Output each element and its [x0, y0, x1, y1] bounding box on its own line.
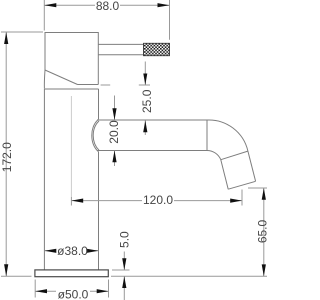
spout bottom edge — [97, 150, 207, 152]
arrow 172.0 up — [4, 32, 8, 44]
svg-text:ø38.0: ø38.0 — [57, 244, 88, 258]
spout bend outer arc — [207, 120, 248, 151]
body left edge — [43, 89, 45, 270]
spout top edge — [97, 119, 207, 121]
arrow 120.0 right — [230, 199, 242, 203]
arrow o50.0 right — [97, 289, 109, 293]
faucet head block — [45, 33, 98, 85]
arrow 20.0 down — [112, 108, 116, 120]
dim 172.0 dimension line — [5, 32, 7, 276]
arrow o50.0 left — [35, 289, 47, 293]
dim o50.0 dimension line — [35, 290, 108, 292]
body top edge — [44, 88, 98, 90]
body right edge lower — [98, 152, 100, 270]
spout bend inner arc — [207, 151, 221, 160]
dim 65.0 top extension line — [248, 187, 267, 189]
dim 120.0 right extension line — [241, 190, 243, 206]
svg-text:25.0: 25.0 — [140, 89, 154, 113]
body right edge upper — [98, 89, 100, 119]
spout-body intersection arc inner — [93, 121, 99, 150]
arrow 172.0 down — [4, 264, 8, 276]
dim o50.0 left extension line — [34, 280, 36, 298]
arrow 5.0 up — [122, 276, 126, 288]
dim o50.0 right extension line — [108, 280, 110, 298]
dim 20.0 lower arrow stem — [114, 151, 116, 167]
spout-body intersection arc outer — [92, 119, 99, 152]
shared bottom extension line — [111, 275, 267, 277]
base plate — [35, 270, 108, 277]
dim 25.0 upper arrow stem — [144, 62, 146, 86]
dim 88.0 left extension line — [43, 0, 45, 31]
handle rod bottom — [98, 54, 143, 56]
arrow 65.0 down — [262, 264, 266, 276]
handle knurl grip — [144, 43, 170, 55]
dim 65.0 dimension line — [263, 188, 265, 276]
arrow 25.0 up — [143, 121, 147, 133]
handle rod top — [98, 43, 143, 45]
svg-text:172.0: 172.0 — [0, 142, 14, 172]
dim 120.0 dimension line — [71, 200, 242, 202]
dim 172.0 top extension line — [1, 31, 43, 33]
arrow o38.0 right — [87, 249, 99, 253]
svg-text:65.0: 65.0 — [255, 219, 267, 243]
dim 25.0 lower arrow stem — [144, 121, 146, 136]
svg-text:120.0: 120.0 — [143, 193, 173, 207]
svg-text:5.0: 5.0 — [117, 231, 131, 248]
arrow 65.0 up — [262, 188, 266, 200]
dim 88.0 right extension line — [169, 0, 171, 40]
dim 5.0 top extension tick — [112, 269, 130, 271]
svg-text:20.0: 20.0 — [107, 120, 121, 144]
spout bend joint line — [206, 120, 208, 151]
dim 88.0 dimension line — [44, 4, 169, 6]
outlet joint line — [221, 151, 248, 160]
dim 25.0 extension tick — [101, 84, 150, 86]
dim o38.0 dimension line — [45, 250, 99, 252]
arrow 25.0 down — [143, 74, 147, 86]
arrow o38.0 left — [45, 249, 57, 253]
outlet end face — [228, 181, 255, 189]
dim 20.0 upper arrow stem — [114, 96, 116, 121]
head bottom edge — [78, 84, 99, 86]
svg-text:88.0: 88.0 — [96, 0, 120, 13]
arrow 5.0 down — [122, 258, 126, 270]
outlet inner edge — [221, 160, 228, 190]
arrow 88.0 left — [44, 3, 56, 7]
dim 5.0 lower arrow stem — [123, 276, 125, 300]
arrow 20.0 up — [112, 151, 116, 163]
arrow 120.0 left — [71, 199, 83, 203]
outlet outer edge — [248, 151, 256, 181]
svg-text:ø50.0: ø50.0 — [58, 287, 89, 300]
arrow 88.0 right — [158, 3, 170, 7]
body centerline — [70, 96, 72, 196]
head chamfer diagonal — [45, 70, 78, 85]
dim 5.0 upper arrow stem — [123, 252, 125, 271]
dim 172.0 bottom extension line — [1, 275, 32, 277]
head left arc — [43, 70, 46, 89]
dim 120.0 left extension (centerline ext) — [70, 197, 72, 206]
